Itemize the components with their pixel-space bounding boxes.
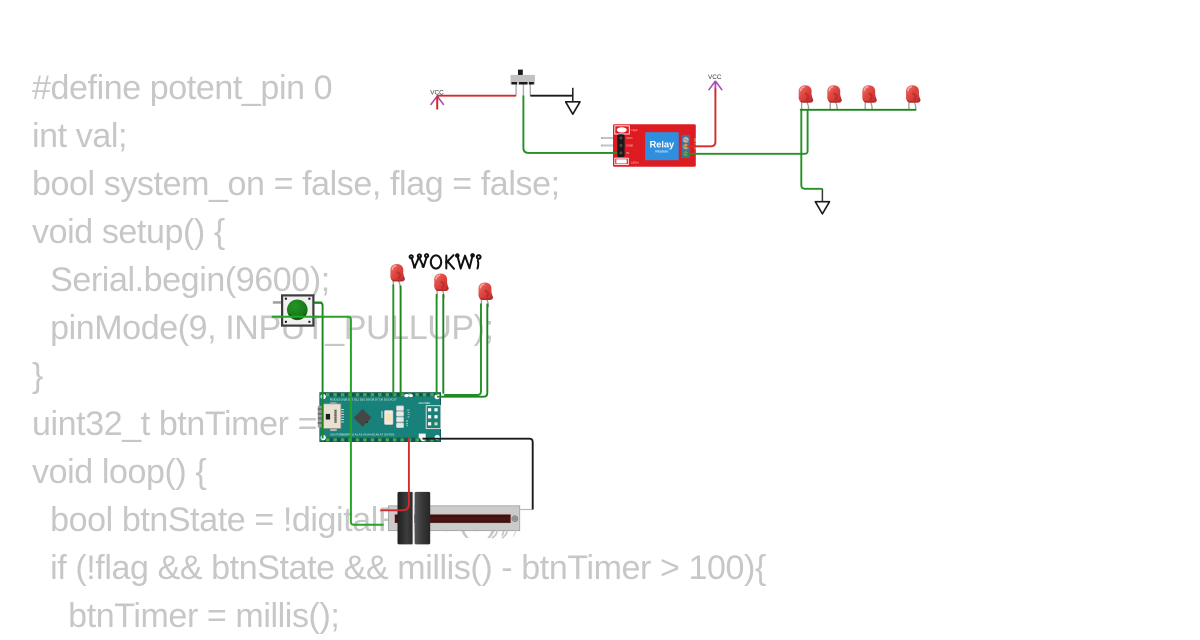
- wire: led anode rail (green): [800, 109, 916, 111]
- wire: switch pin2 to relay IN (green): [523, 96, 617, 153]
- relay hi-link top-left: [615, 126, 630, 134]
- nano test pads top: [404, 394, 413, 397]
- background source-code watermark: [32, 64, 766, 640]
- svg-text:LEDn: LEDn: [631, 161, 639, 165]
- wire: nano 5V to pot right pin (black): [423, 439, 533, 510]
- svg-text:Module: Module: [655, 149, 669, 154]
- wire: led rail to gnd (green): [801, 110, 822, 189]
- relay screw terminal: [682, 135, 690, 158]
- svg-text:GND: GND: [626, 144, 634, 148]
- wire: led D5 right leg to nano D11 (green): [400, 286, 402, 396]
- pot right pin: [520, 509, 533, 511]
- nano small silk text: [405, 401, 430, 427]
- wire: button pin1r to nano GND (dark green): [314, 303, 323, 439]
- relay module U1: [601, 124, 697, 167]
- slide potentiometer track: [389, 506, 533, 538]
- wire: button pin2l to nano D9 and pot (green over board): [272, 317, 384, 525]
- svg-text:V1N P2RBDR9 A0 A1 A2: V1N P2RBDR9 A0 A1 A2 A3 A4 A5 A6 A7 3O R…: [330, 432, 395, 436]
- ground symbol (led rail): [815, 189, 829, 214]
- vcc symbol (relay feed): [708, 74, 722, 96]
- nano mcu chip (diamond): [354, 409, 372, 427]
- nano capacitors: [396, 406, 403, 428]
- svg-text:VCC: VCC: [708, 74, 722, 81]
- arduino nano board: [320, 393, 441, 442]
- relay NO C NC labels: [693, 138, 697, 150]
- wire: nano A0 to pot wiper (red): [380, 438, 409, 511]
- relay pin labels: [626, 136, 634, 155]
- LED D1: [799, 85, 813, 110]
- wire: relay NO to led rail (green): [688, 110, 808, 154]
- wire: led D6 right leg to nano (green): [442, 294, 444, 394]
- svg-text:G A T A: G A T A: [407, 409, 411, 418]
- wire: led D6 left leg to nano (green): [436, 294, 438, 395]
- LED D7: [479, 283, 493, 308]
- wire: vcc1 to switch pin1 (red): [437, 95, 516, 97]
- relay pins VCC GND IN: [601, 138, 618, 153]
- svg-text:R1/D13 D/1B D12 D11 D10: R1/D13 D/1B D12 D11 D10 D9 D8 D7 D6 D5 D…: [330, 398, 397, 402]
- LED D6: [434, 274, 448, 299]
- nano pin labels top: [330, 398, 397, 402]
- relay blue body: [645, 132, 679, 160]
- LED D5: [390, 264, 404, 289]
- vcc symbol (switch feed): [430, 89, 444, 109]
- LED D4: [906, 85, 920, 110]
- wire: led D7 right leg to nano (green): [437, 304, 487, 397]
- relay header block: [617, 134, 624, 157]
- nano corner holes: [321, 394, 440, 440]
- nano A0 pad bottom right: [419, 434, 426, 442]
- ground symbol (switch): [566, 88, 580, 114]
- wokwi logo text: [410, 254, 481, 269]
- wire: led D7 left leg to nano (green): [444, 304, 481, 396]
- nano power led: [382, 410, 393, 424]
- svg-text:NO C NC: NO C NC: [693, 138, 697, 150]
- nano pin labels bottom: [330, 432, 395, 436]
- wire: led D5 left leg to nano D12 (green): [392, 285, 394, 396]
- nano bottom pin pads: [326, 438, 434, 441]
- svg-text:ANA MEG: ANA MEG: [419, 401, 431, 405]
- wire: relay vcc feed (red): [687, 97, 715, 147]
- nano icsp header: [426, 406, 441, 429]
- relay pcb: [613, 124, 696, 167]
- pot legs below: [492, 531, 507, 539]
- LED D2: [827, 85, 841, 110]
- nano top pin pads: [326, 393, 434, 396]
- svg-text:R S T: R S T: [405, 420, 409, 427]
- svg-text:IN: IN: [626, 151, 629, 155]
- pushbutton SW2: [273, 295, 323, 325]
- slide switch SW1: [511, 70, 536, 96]
- svg-text:VCC: VCC: [626, 136, 633, 140]
- relay bottom-left component: [615, 158, 629, 164]
- pot slider knob: [398, 492, 431, 545]
- svg-text:High: High: [632, 128, 639, 132]
- LED D3: [862, 85, 876, 110]
- nano mini-usb connector: [318, 402, 344, 431]
- wire: switch pin3 to gnd (black): [530, 95, 573, 97]
